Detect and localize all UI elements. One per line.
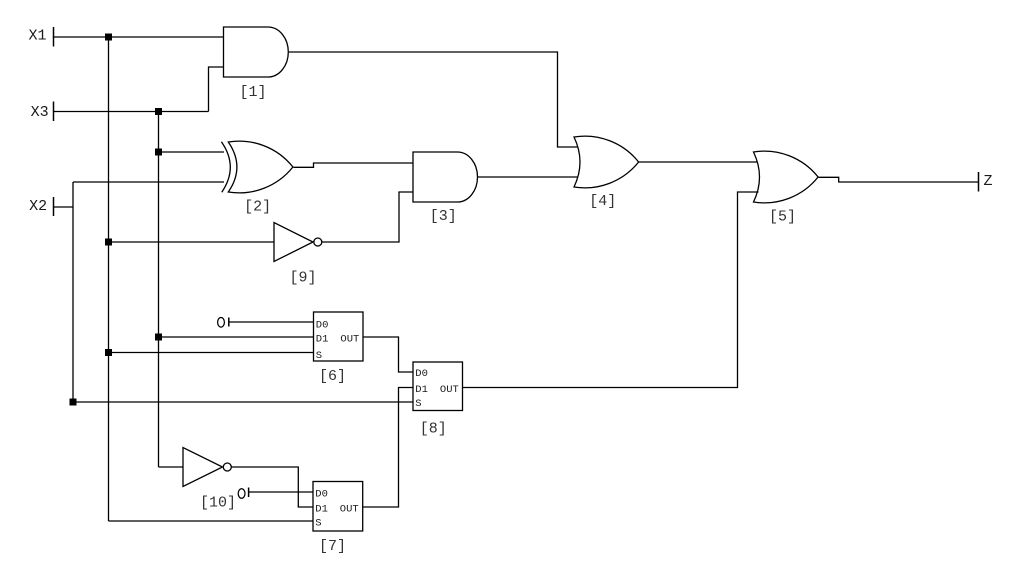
input X2 terminal tick [53,197,55,216]
wire inverter9 input [109,241,275,243]
wire OR5 output to Z [818,177,978,182]
inverter [10] [183,448,223,487]
inverter [9] bubble [314,238,322,246]
svg-text:S: S [315,518,321,530]
mux [7] box [313,482,363,532]
svg-text:D0: D0 [415,368,428,380]
wire mux8 OUT to OR5 [463,192,759,388]
wire X3 vertical branch [158,112,160,468]
wire inverter10 output to mux7 D1 [231,467,313,507]
wire constant0 to mux6 D0 [229,321,314,323]
input X3 terminal tick [53,102,55,122]
svg-text:S: S [415,398,421,410]
inverter [9] [274,223,313,262]
node junction X1 top [105,34,112,41]
AND gate [3] [413,152,478,202]
constant 0 tick mux7 [248,488,250,498]
svg-text:D1: D1 [415,384,428,396]
svg-text:D1: D1 [316,334,329,346]
XOR gate [2] input arc [221,142,230,192]
wire XOR lower input [73,181,224,183]
constant 0 tick mux6 [228,318,230,327]
input X1 terminal tick [53,27,55,47]
node junction X2 bottom [70,399,77,406]
wire inverter9 output to AND3 [322,192,413,242]
wire XOR top input [159,151,225,153]
AND gate [1] [224,27,289,77]
wire X2 vertical branch [72,182,74,402]
OR gate [4] [574,136,639,188]
wire X3 to inverter10 input [159,466,184,468]
svg-text:X3: X3 [31,104,49,121]
node junction mux6 S input [105,349,112,356]
wire X2 run to mux8 S [73,401,413,403]
svg-text:[3]: [3] [430,208,457,225]
wire AND3 output to OR4 [478,176,578,178]
svg-text:X2: X2 [29,198,47,215]
svg-text:[2]: [2] [244,199,271,216]
node junction inverter9 input [105,239,112,246]
wire X2 horizontal [54,206,74,208]
svg-text:[7]: [7] [319,538,346,555]
mux [6] box [314,312,364,361]
svg-text:[1]: [1] [239,84,266,101]
svg-text:D1: D1 [315,504,328,516]
mux [8] box [413,362,463,411]
svg-text:OUT: OUT [440,384,459,396]
svg-text:[9]: [9] [289,270,316,287]
svg-text:OUT: OUT [340,504,359,516]
wire X1 vertical branch [108,37,110,521]
node junction mux6 D1 input [155,334,162,341]
wire mux6 OUT to mux8 D0 [363,337,413,372]
wire constant0 to mux7 D0 [249,491,313,493]
svg-text:[8]: [8] [420,421,447,438]
svg-text:Z: Z [984,173,993,190]
wire X1 to mux7 S [109,520,314,522]
node junction X3 [155,108,162,115]
constant 0 label for mux7 [238,489,245,499]
constant 0 label for mux6 [218,318,225,328]
wire mux7 OUT to mux8 D1 [363,388,413,508]
svg-text:[4]: [4] [589,193,616,210]
inverter [10] bubble [223,463,231,471]
node junction XOR top input [155,149,162,156]
svg-text:D0: D0 [315,488,328,500]
svg-text:[10]: [10] [200,495,236,512]
svg-text:D0: D0 [316,319,329,331]
svg-text:S: S [316,350,322,362]
wire X3 horizontal [54,111,209,113]
wire mux6 S input [109,352,314,354]
output Z terminal tick [978,172,980,192]
svg-text:OUT: OUT [340,334,359,346]
wire OR4 output to OR5 [639,161,757,163]
svg-text:X1: X1 [29,28,47,45]
wire riser to AND1 lower input [209,67,224,112]
wire AND1 output to OR4 [289,52,578,147]
wire mux6 D1 input [159,336,314,338]
OR gate [5] [754,151,819,203]
XOR gate [2] [228,141,293,193]
wire X1 horizontal to AND gate [54,36,224,38]
svg-text:[6]: [6] [319,368,346,385]
wire XOR output to AND3 [293,163,413,167]
svg-text:[5]: [5] [769,209,796,226]
